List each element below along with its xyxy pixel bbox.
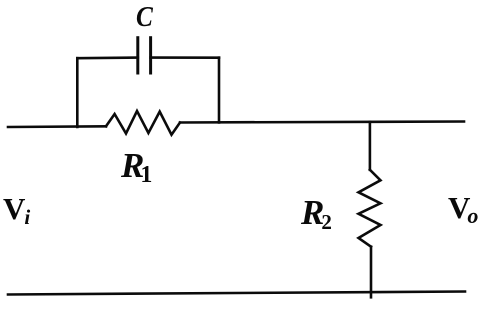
resistor R2 (vertical zigzag) xyxy=(359,170,381,247)
label R1 (resistor designator) xyxy=(121,148,152,187)
wire capacitor branch left vertical xyxy=(76,58,79,127)
wire bottom rail xyxy=(8,292,465,295)
label C (capacitor value) xyxy=(136,3,153,32)
wire top rail right of R1 to output xyxy=(180,122,464,123)
node junction: top rail to R2 lead xyxy=(369,122,372,170)
resistor R1 (horizontal zigzag) xyxy=(106,111,180,135)
label R2 (resistor designator) xyxy=(301,195,332,233)
wire capacitor branch right vertical xyxy=(218,58,221,123)
label Vo (output voltage) xyxy=(448,192,478,227)
wire capacitor branch top-left horizontal xyxy=(77,56,138,59)
wire capacitor branch top-right horizontal xyxy=(151,56,219,59)
wire input lead (top-left rail) xyxy=(8,125,106,128)
capacitor C right plate xyxy=(149,38,152,73)
capacitor C left plate xyxy=(136,38,139,73)
wire R2 bottom lead to bottom rail xyxy=(370,247,373,298)
label Vi (input voltage) xyxy=(3,193,30,228)
